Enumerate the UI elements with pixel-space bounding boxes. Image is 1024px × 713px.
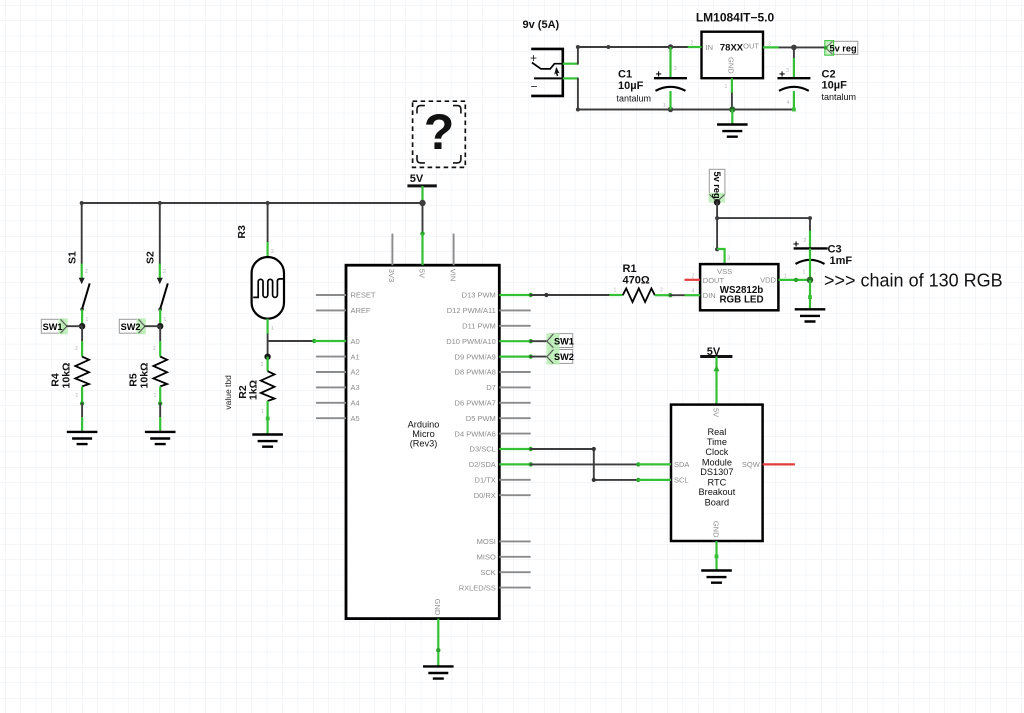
svg-text:3: 3 [727,256,730,262]
svg-text:10kΩ: 10kΩ [138,363,150,389]
WS2812b RGB LED body [692,264,788,310]
svg-text:2: 2 [660,288,663,294]
svg-text:10kΩ: 10kΩ [60,363,72,389]
svg-text:Micro: Micro [412,429,434,439]
svg-text:R1: R1 [623,263,637,275]
ground under R2 [252,435,283,447]
svg-text:GND: GND [433,599,442,616]
junction C1 bottom [668,107,673,112]
svg-text:Breakout: Breakout [699,487,736,497]
ground under R5 [145,432,176,444]
resistor R4 10k [50,357,90,406]
svg-text:MISO: MISO [477,553,496,562]
svg-text:VIN: VIN [448,269,457,282]
svg-text:5v reg: 5v reg [712,172,722,199]
svg-text:5V: 5V [410,173,424,185]
pin OUT of U2 [763,46,780,48]
wire 5V to RTC [714,357,720,405]
svg-text:1: 1 [725,84,728,90]
power symbol 5V (RTC) [700,346,732,358]
svg-text:−: − [531,80,538,94]
power jack J1 [530,49,563,96]
svg-text:SCL: SCL [674,476,689,485]
wire rail to R3 [268,203,274,257]
wire 5V rail [80,201,423,205]
pin 5V top [421,234,423,266]
wire D13 to R1 [531,293,610,297]
svg-text:GND: GND [711,521,720,538]
svg-text:1: 1 [164,317,167,323]
pin DIN of WS2812b [685,294,701,296]
svg-text:1: 1 [663,103,666,109]
Arduino Micro U1 body [346,265,499,618]
pin D13 [499,293,533,297]
svg-text:Board: Board [705,497,730,507]
capacitor C1 10uF tantalum [617,47,688,110]
svg-text:D1/TX: D1/TX [475,476,496,485]
pin GND of U2 [731,78,733,109]
svg-text:3: 3 [786,68,789,74]
net label 5v reg [824,41,858,56]
resistor R2 1k value tbd [223,357,275,435]
svg-text:10µF: 10µF [618,80,644,92]
net label SW2 (left) [119,318,146,334]
svg-text:D9 PWM/A9: D9 PWM/A9 [455,352,496,361]
svg-text:1: 1 [154,393,157,399]
svg-text:1: 1 [614,288,617,294]
U1 top pin labels [387,269,457,616]
svg-text:OUT: OUT [743,42,759,51]
RTC DS1307 breakout body [671,405,763,541]
net label SW1 (left) [41,318,68,334]
svg-text:D2/SDA: D2/SDA [469,460,496,469]
pin R3 bottom [268,319,274,335]
wire SW2 label to node [145,325,160,327]
svg-text:1: 1 [261,409,264,415]
svg-text:2: 2 [271,249,274,255]
net labels SW1 SW2 (right) [546,333,574,364]
svg-text:D7: D7 [486,383,496,392]
svg-text:2: 2 [85,269,88,275]
wire rail to S1 [81,203,83,264]
svg-text:2: 2 [261,362,264,368]
pin + of J1 [563,63,579,65]
svg-text:2: 2 [691,41,694,47]
svg-text:SW2: SW2 [121,322,141,332]
photoresistor R3 [236,225,285,319]
wire D10 to SW1 label [531,340,547,342]
svg-text:2: 2 [692,273,695,279]
svg-text:tantalum: tantalum [822,92,857,102]
svg-text:RESET: RESET [351,291,376,300]
regulator U2 78XX body [691,32,772,90]
pin - of J1 [563,77,579,79]
svg-text:3V3: 3V3 [387,269,396,282]
wire R3 to A0 and R2 [268,335,317,357]
net label 5v reg (vertical) [709,169,726,202]
power symbol 5V (Arduino) [407,173,436,203]
switch S1 [67,251,90,326]
svg-text:1: 1 [803,270,806,276]
svg-text:SW2: SW2 [554,352,574,362]
svg-text:DIN: DIN [703,291,716,300]
svg-text:D0/RX: D0/RX [474,491,496,500]
wire node to R5 [153,326,160,356]
capacitor C3 1mF [793,238,852,280]
junction GND rail [729,106,735,112]
svg-text:R3: R3 [236,225,248,239]
pin GND of RTC [715,541,719,571]
pin D10 [499,339,533,343]
wire J1- ground rail [576,78,793,111]
svg-text:A4: A4 [351,399,360,408]
svg-text:tantalum: tantalum [617,94,652,104]
resistor R5 10k [128,357,168,406]
svg-text:D3/SCL: D3/SCL [470,445,496,454]
junction 5V rail / Arduino [419,200,425,206]
regulator U2 78XX label LM1084IT-5.0 [696,11,775,25]
mystery part U? [413,101,466,167]
svg-text:AREF: AREF [351,306,371,315]
svg-text:470Ω: 470Ω [623,275,650,287]
ground under C3 [795,309,826,321]
svg-text:DS1307: DS1307 [700,467,733,477]
svg-text:5v reg: 5v reg [830,43,857,53]
svg-text:Arduino: Arduino [408,419,440,429]
svg-text:RXLED/SS: RXLED/SS [459,583,496,592]
junction VDD / C3 / ground [807,277,814,284]
U1 left pin labels [351,291,376,423]
svg-text:value tbd: value tbd [223,375,233,410]
svg-text:1: 1 [76,393,79,399]
switch S2 [145,251,168,326]
junction SW1 node [79,323,85,329]
svg-text:Module: Module [702,457,732,467]
wire SQW dangling (red) [763,463,795,465]
svg-text:1: 1 [86,317,89,323]
svg-text:SW1: SW1 [554,337,574,347]
wire D2 to RTC SDA [531,462,641,466]
pin GND bottom [436,619,440,667]
pin A0 [314,340,346,342]
svg-text:S1: S1 [67,251,79,264]
svg-text:SW1: SW1 [43,322,63,332]
pin D9 [499,354,533,358]
capacitor C2 10uF tantalum [777,68,856,111]
junction 5v reg node [714,199,721,206]
label chain of 130 RGB [824,270,1003,290]
svg-text:RTC: RTC [708,477,727,487]
svg-text:C1: C1 [618,69,632,81]
svg-text:(Rev3): (Rev3) [410,439,438,449]
U1 left gray stubs [316,295,346,418]
wire junction to ground [808,280,812,309]
junction R2 top [264,354,270,360]
svg-text:D11 PWM: D11 PWM [462,322,496,331]
svg-text:A0: A0 [351,337,360,346]
svg-text:GND: GND [727,57,736,74]
junction C1 top [668,44,673,49]
wire SW1 label to node [67,325,82,327]
svg-text:VDD: VDD [760,276,776,285]
svg-text:SDA: SDA [674,460,689,469]
pin SDA of RTC [638,463,671,465]
wire OUT junction down to C2 [793,47,795,78]
pin SCL of RTC [638,479,671,481]
svg-text:78XX: 78XX [720,42,744,53]
svg-text:IN: IN [706,43,714,52]
svg-text:C3: C3 [828,244,842,256]
svg-text:2: 2 [163,269,166,275]
svg-text:D10 PWM/A10: D10 PWM/A10 [446,337,496,346]
U1 top stubs 3V3 VIN [392,234,453,266]
svg-text:4: 4 [787,100,790,106]
svg-text:A1: A1 [351,352,360,361]
svg-text:9v (5A): 9v (5A) [523,19,560,31]
svg-text:Real: Real [707,427,726,437]
svg-text:1mF: 1mF [830,255,853,267]
ground under regulator [717,110,748,137]
wire 5v reg to VSS and C3 [715,202,812,251]
svg-text:2: 2 [804,238,807,244]
wire R1 to DIN [670,294,684,296]
wire R5 to ground [159,403,161,432]
svg-text:D4 PWM/A6: D4 PWM/A6 [455,429,496,438]
U1 right pin labels [446,291,496,593]
pin VSS of WS2812b [717,249,730,264]
svg-text:A3: A3 [351,383,360,392]
wire DOUT dangling (red) [685,279,701,281]
ground under RTC [701,571,732,583]
ground under R4 [67,432,98,444]
svg-text:5V: 5V [711,408,720,417]
wire D3 to RTC SCL [531,447,641,482]
svg-text:SCK: SCK [480,568,495,577]
resistor R1 470ohm [609,263,672,302]
svg-text:>>> chain of 130 RGB: >>> chain of 130 RGB [824,270,1003,290]
svg-text:LM1084IT−5.0: LM1084IT−5.0 [696,11,775,25]
wire D9 to SW2 label [531,356,547,358]
svg-text:S2: S2 [145,251,157,264]
pin D3/SCL [499,447,533,451]
svg-text:D5 PWM: D5 PWM [466,414,496,423]
svg-text:A5: A5 [351,414,360,423]
svg-text:10µF: 10µF [822,80,848,92]
ground under Arduino [423,666,454,678]
wire J1+ to 78XX IN [576,45,688,64]
pin VDD of WS2812b [778,278,810,282]
wire OUT to 5v reg label [780,45,826,51]
svg-text:4: 4 [692,288,695,294]
label 9v (5A) [523,19,560,31]
svg-text:1: 1 [784,273,787,279]
svg-text:C2: C2 [822,68,836,80]
svg-text:D6 PWM/A7: D6 PWM/A7 [455,399,496,408]
svg-text:5V: 5V [417,269,426,278]
svg-text:1kΩ: 1kΩ [247,380,259,400]
pin IN of U2 [688,46,702,48]
svg-text:Time: Time [707,437,727,447]
svg-text:Clock: Clock [705,447,728,457]
wire node to R4 [75,326,82,356]
svg-text:D8 PWM/A8: D8 PWM/A8 [455,368,496,377]
svg-text:MOSI: MOSI [477,537,496,546]
wire R4 to ground [81,403,83,432]
svg-text:2: 2 [75,346,78,352]
svg-text:VSS: VSS [717,267,732,276]
svg-text:RGB LED: RGB LED [719,294,763,305]
wire rail to S2 [159,203,161,264]
pin D2/SDA [499,462,533,466]
svg-text:?: ? [424,104,455,160]
svg-text:D12 PWM/A11: D12 PWM/A11 [447,306,496,315]
svg-text:2: 2 [674,66,677,72]
svg-text:A2: A2 [351,368,360,377]
junction SW2 node [157,323,163,329]
svg-text:1: 1 [271,326,274,332]
svg-text:2: 2 [153,346,156,352]
svg-text:SQW: SQW [742,460,761,469]
wire rail to Arduino 5V pin [420,203,424,236]
svg-text:D13 PWM: D13 PWM [462,291,496,300]
U1 right gray stubs [499,310,530,587]
